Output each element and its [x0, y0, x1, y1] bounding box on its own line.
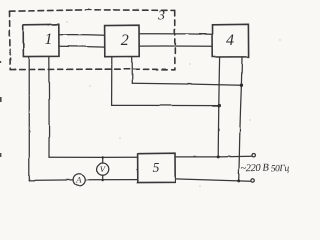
svg-text:5: 5: [153, 160, 160, 175]
svg-text:1: 1: [45, 31, 53, 48]
svg-text:3: 3: [157, 9, 165, 24]
svg-text:2: 2: [121, 32, 129, 49]
svg-text:4: 4: [226, 32, 234, 49]
svg-text:~220 В 50Гц: ~220 В 50Гц: [240, 162, 289, 175]
svg-text:A: A: [75, 175, 82, 185]
